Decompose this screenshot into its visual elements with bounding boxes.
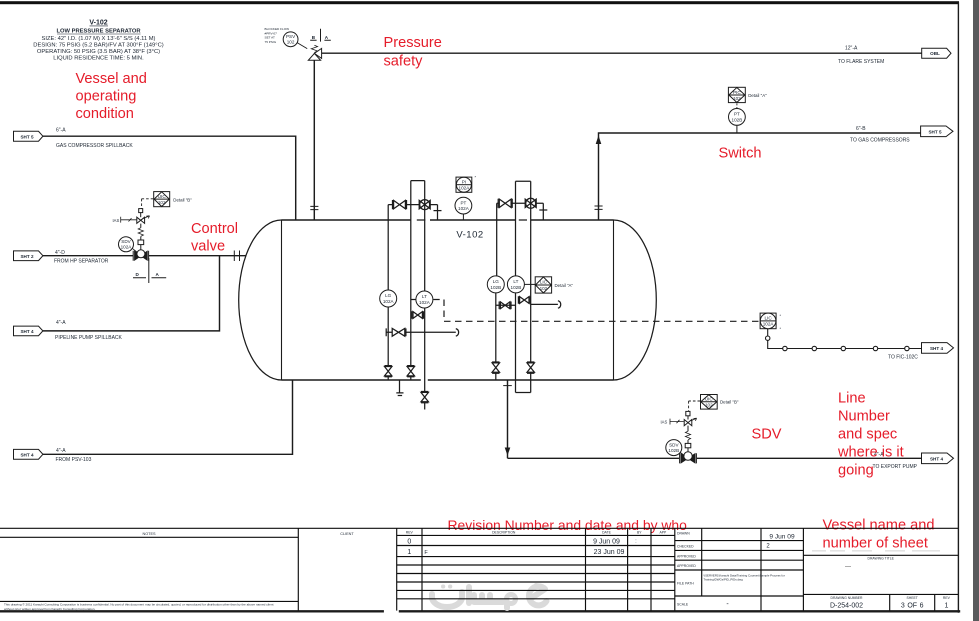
gauge glass LG 102B <box>487 276 504 293</box>
link LT102B to LIC shared symbol <box>524 283 535 285</box>
svg-text:FROM PSV-103: FROM PSV-103 <box>56 457 92 463</box>
svg-text:1: 1 <box>407 549 411 556</box>
svg-text:TO FLARE SYSTEM: TO FLARE SYSTEM <box>838 59 884 65</box>
svg-text:LT: LT <box>513 279 518 284</box>
shutdown valve SDV-102A <box>121 209 150 261</box>
vessel shell bottom <box>282 379 614 381</box>
sheet flag SHT 4 (FIC-102C) <box>922 343 954 354</box>
svg-text:102A: 102A <box>458 206 470 211</box>
svg-text:SDV: SDV <box>121 239 131 244</box>
shutdown valve SDV-102B <box>670 411 697 463</box>
border frame right edge <box>957 3 959 612</box>
ball valve on header <box>419 200 430 208</box>
svg-text:Switch: Switch <box>719 146 762 162</box>
svg-text:SDV: SDV <box>752 427 782 443</box>
svg-text:Vessel name and: Vessel name and <box>823 518 935 534</box>
flag OBL to flare <box>922 48 951 58</box>
svg-text:SIZE: 42" I.D. (1.07 M) X 13'-: SIZE: 42" I.D. (1.07 M) X 13'-6" S/S (4.… <box>41 36 155 42</box>
revision table <box>422 528 675 610</box>
drain valve below vessel on LT line <box>421 392 428 401</box>
instrument bubble SDV 102B <box>666 440 682 456</box>
relief valve PSV-102 <box>308 45 321 220</box>
svg-text:102A: 102A <box>121 245 133 250</box>
svg-text:REV: REV <box>943 596 951 600</box>
svg-text:CHECKED: CHECKED <box>677 545 694 549</box>
svg-text:LG: LG <box>385 293 392 298</box>
faint marks in title area <box>812 550 940 552</box>
svg-text:SHT 2: SHT 2 <box>20 254 33 259</box>
svg-text:102: 102 <box>287 40 295 45</box>
svg-text:9 Jun 09: 9 Jun 09 <box>769 534 795 541</box>
IAS supply <box>121 217 137 223</box>
transmitter LT 102B <box>507 276 524 293</box>
ball valve on header <box>525 199 536 207</box>
drain to grade ground <box>396 380 403 396</box>
svg-text:102A: 102A <box>419 300 431 305</box>
svg-text:SHT 4: SHT 4 <box>20 452 33 457</box>
svg-text:SHEET: SHEET <box>907 596 918 600</box>
scrollbar gray strip <box>973 0 979 621</box>
isolation header line <box>388 205 437 220</box>
svg-text:Detail "A": Detail "A" <box>748 93 767 98</box>
svg-text:4"-A: 4"-A <box>56 448 66 454</box>
standpipe <box>411 181 425 392</box>
svg-text:3 OF 6: 3 OF 6 <box>901 602 924 609</box>
svg-text:condition: condition <box>76 106 134 122</box>
svg-text:APPROVED: APPROVED <box>677 564 696 568</box>
svg-text:102B: 102B <box>732 117 743 122</box>
svg-text:Pressure: Pressure <box>384 35 442 51</box>
svg-text:D-254-002: D-254-002 <box>830 602 863 609</box>
file path tiny <box>704 574 785 582</box>
svg-text:Control: Control <box>191 221 238 237</box>
svg-text:1: 1 <box>944 602 948 609</box>
svg-text:23 Jun 09: 23 Jun 09 <box>594 549 625 556</box>
signal dashes to SDV-102A <box>142 199 154 209</box>
svg-text:102: 102 <box>540 286 548 291</box>
svg-text:OPERATING: 50 PSIG (3.5 BAR) A: OPERATING: 50 PSIG (3.5 BAR) AT 38°F (3°… <box>37 49 160 55</box>
table header labels <box>142 530 950 606</box>
svg-text:SCALE: SCALE <box>677 603 689 607</box>
pipe: 4"-A pipeline pump spillback <box>43 256 220 331</box>
svg-text:102B: 102B <box>668 448 679 453</box>
interlock Detail B (UIC 102) <box>154 192 170 207</box>
title block <box>0 528 958 610</box>
svg-text:DATE: DATE <box>602 530 612 534</box>
table values <box>407 534 948 610</box>
solenoid box <box>139 209 143 213</box>
svg-text:DRAWN: DRAWN <box>677 532 690 536</box>
shared display Detail A (PIC 102) <box>728 87 745 108</box>
svg-text::: : <box>635 539 636 545</box>
svg-text:102A: 102A <box>763 321 775 326</box>
pipe: 6"-B to gas compressors <box>595 133 921 220</box>
svg-text:PT: PT <box>734 112 740 117</box>
svg-text:Detail "B": Detail "B" <box>173 197 192 202</box>
equalizing valve between standpipe lines <box>413 312 422 319</box>
svg-text:UIC: UIC <box>158 194 167 199</box>
flow arrow down <box>505 448 511 456</box>
pipe: 4"-A from PSV-103 <box>43 380 293 454</box>
spec break D/A below line <box>133 258 166 283</box>
drain valve standpipe right line <box>527 363 534 372</box>
gauge glass LG 102A <box>380 290 397 307</box>
svg-text:SHT 5: SHT 5 <box>20 134 33 139</box>
note blocked flow <box>265 27 290 44</box>
svg-text:NOTES: NOTES <box>142 532 156 536</box>
flow arrow up <box>596 136 602 145</box>
svg-text:PIPELINE PUMP SPILLBACK: PIPELINE PUMP SPILLBACK <box>55 335 123 341</box>
svg-text:9 Jun 09: 9 Jun 09 <box>593 539 620 546</box>
spec break B/A at PSV <box>310 29 331 42</box>
svg-text:6"-B: 6"-B <box>856 126 866 132</box>
solenoid 3-way valve <box>137 217 145 223</box>
pipe: gas compressor spillback 6-A <box>43 136 296 220</box>
watermark khamsat <box>432 585 547 608</box>
sheet flag SHT 5 (left) <box>14 131 43 141</box>
shared logic LIC 102 Detail A <box>535 277 551 293</box>
svg-text:SHT 4: SHT 4 <box>20 329 33 334</box>
svg-text:102A: 102A <box>383 299 395 304</box>
svg-text:Detail "B": Detail "B" <box>720 400 739 405</box>
svg-text:IAS: IAS <box>661 420 668 425</box>
vessel left head <box>239 220 282 380</box>
svg-text:APP: APP <box>660 530 668 534</box>
standpipe <box>516 181 531 392</box>
svg-text:LT: LT <box>422 294 427 299</box>
equalizing valve upper <box>520 297 529 304</box>
svg-text:4"-A: 4"-A <box>56 320 66 326</box>
border frame bottom bar <box>0 610 959 612</box>
gauge PI 102A <box>456 177 472 192</box>
interlock Detail B (UIC 102) right <box>701 395 718 410</box>
vent hook line left <box>386 328 456 336</box>
actuator stem <box>140 245 142 250</box>
svg-text:4"-D: 4"-D <box>55 250 65 256</box>
svg-text:valve: valve <box>191 239 225 255</box>
svg-text:Line: Line <box>838 391 866 407</box>
vent hook line right <box>531 303 558 305</box>
svg-text:DRAWING TITLE: DRAWING TITLE <box>868 557 895 561</box>
vessel V-102 <box>239 220 657 380</box>
positioner box <box>138 240 144 245</box>
svg-text:PT: PT <box>460 200 466 205</box>
svg-text:102: 102 <box>705 403 713 408</box>
svg-text:0: 0 <box>407 538 411 545</box>
nozzle flange pair at vessel inlet <box>234 251 239 262</box>
vessel shell top <box>282 219 614 221</box>
PSV inlet nozzle flanges <box>310 206 318 209</box>
svg-text:REV: REV <box>406 530 414 534</box>
svg-text:102: 102 <box>733 96 741 101</box>
svg-text:PI: PI <box>462 179 466 184</box>
instrument bubble PSV 102 <box>283 32 298 47</box>
svg-text:UIC: UIC <box>705 397 714 402</box>
svg-text:SDV: SDV <box>669 442 679 447</box>
copyright note <box>4 602 274 611</box>
LG 102A tap <box>388 205 416 366</box>
svg-text:SHT 5: SHT 5 <box>928 129 941 134</box>
transmitter PT 102A <box>455 197 472 214</box>
svg-text:This drawing © 2011 Karachi C: This drawing © 2011 Karachi Consulting C… <box>4 602 274 606</box>
signal dashed line LT-102A to LIC-102A <box>433 300 760 322</box>
svg-text:going: going <box>838 463 874 479</box>
svg-text:TO GAS COMPRESSORS: TO GAS COMPRESSORS <box>850 137 910 143</box>
gauge isolation valve lower <box>500 302 509 309</box>
svg-text:LIC: LIC <box>765 316 773 321</box>
svg-text:102: 102 <box>158 200 166 205</box>
svg-text:LG: LG <box>493 279 500 284</box>
svg-text:SHT 4: SHT 4 <box>930 456 943 461</box>
sheet flag SHT 4 (pipeline) <box>14 326 43 336</box>
strip outline <box>0 527 958 529</box>
svg-text:IAS: IAS <box>113 218 120 223</box>
svg-text:PSV: PSV <box>286 34 296 39</box>
svg-text:LOW PRESSURE SEPARATOR: LOW PRESSURE SEPARATOR <box>56 29 141 35</box>
svg-text:safety: safety <box>384 54 424 70</box>
vessel spec note text block <box>33 20 163 62</box>
sheet flag SHT 4 (export) <box>922 453 954 464</box>
svg-text:75 PSIG: 75 PSIG <box>265 40 277 44</box>
border frame top bar <box>0 1 959 4</box>
level controller LIC 102A <box>760 313 776 329</box>
svg-text:Vessel and: Vessel and <box>76 71 147 87</box>
drain valve standpipe left <box>407 367 414 376</box>
svg-text:102B: 102B <box>490 285 501 290</box>
pipe: 4"-D from HP separator <box>43 251 246 262</box>
svg-text:V-102: V-102 <box>89 20 107 27</box>
vessel right tangent line <box>613 220 615 380</box>
title area <box>802 528 804 610</box>
watermark khamsat <box>432 592 462 607</box>
svg-text:APPROVED: APPROVED <box>677 554 696 558</box>
LG 102B tap <box>495 203 498 362</box>
svg-text:without prior written approval: without prior written approval from Kara… <box>4 607 95 611</box>
sheet flag SHT 2 <box>14 251 43 261</box>
pipe: flare header 12-A <box>322 52 922 54</box>
svg-text:DRAWING NUMBER: DRAWING NUMBER <box>831 596 863 600</box>
drain valve LG line <box>385 367 392 376</box>
pipe: export pump line <box>503 380 921 458</box>
svg-text:BY: BY <box>637 530 642 534</box>
red annotation: vessel and operating condition <box>76 35 935 552</box>
svg-text:LIC: LIC <box>540 280 548 285</box>
svg-text:SHT 4: SHT 4 <box>930 346 943 351</box>
transmitter LT 102A <box>416 291 433 308</box>
instrument PT 102B <box>729 109 746 126</box>
data link to FIC-102C <box>766 329 922 351</box>
instrument bubble SDV 102A <box>119 237 134 252</box>
svg-text:LIQUID RESIDENCE TIME: 5 MIN.: LIQUID RESIDENCE TIME: 5 MIN. <box>53 56 144 62</box>
svg-text:OBL: OBL <box>930 51 940 56</box>
svg-text:102A: 102A <box>459 186 471 191</box>
svg-text:12"-A: 12"-A <box>845 46 858 52</box>
drain valve LG-B line <box>492 363 499 372</box>
svg-text:TO FIC-102C: TO FIC-102C <box>888 354 918 360</box>
svg-text:number of sheet: number of sheet <box>823 536 928 552</box>
svg-text:PIC: PIC <box>733 90 741 95</box>
gate valve on header <box>394 200 406 208</box>
svg-text:TO EXPORT PUMP: TO EXPORT PUMP <box>873 464 918 470</box>
svg-text:Detail "A": Detail "A" <box>555 283 574 288</box>
svg-text:and spec: and spec <box>838 427 897 443</box>
svg-text:DESCRIPTION: DESCRIPTION <box>492 530 516 534</box>
nozzle flanges 6-B <box>595 206 603 209</box>
svg-text:GAS COMPRESSOR SPILLBACK: GAS COMPRESSOR SPILLBACK <box>56 143 133 149</box>
svg-text:FROM HP SEPARATOR: FROM HP SEPARATOR <box>54 259 109 265</box>
svg-text:102B: 102B <box>511 285 522 290</box>
left level bridle group <box>385 181 459 410</box>
svg-text:FILE PATH: FILE PATH <box>677 582 694 586</box>
approval block <box>702 528 761 610</box>
gate valve on header <box>499 199 511 207</box>
signal dashes to SDV-102B <box>689 401 701 411</box>
sheet flag SHT 5 (right) <box>921 126 953 137</box>
right level bridle group <box>492 181 561 392</box>
svg-text:where is it: where is it <box>837 445 904 461</box>
svg-text:operating: operating <box>76 89 137 105</box>
spring <box>138 228 143 237</box>
svg-text:Training\DWGs\PID_PIDs.dwg: Training\DWGs\PID_PIDs.dwg <box>704 578 744 582</box>
svg-text:6"-A: 6"-A <box>56 128 66 134</box>
vessel left tangent line <box>281 220 283 380</box>
isolation header line <box>497 203 544 220</box>
svg-text:CLIENT: CLIENT <box>340 532 354 536</box>
sheet flag SHT 4 (PSV-103) <box>14 449 43 459</box>
svg-text:Number: Number <box>838 409 890 425</box>
vessel right head <box>614 220 657 380</box>
svg-text:DESIGN: 75 PSIG (5.2 BAR)/FV A: DESIGN: 75 PSIG (5.2 BAR)/FV AT 300°F (1… <box>33 43 163 49</box>
svg-text:V-102: V-102 <box>456 230 483 241</box>
